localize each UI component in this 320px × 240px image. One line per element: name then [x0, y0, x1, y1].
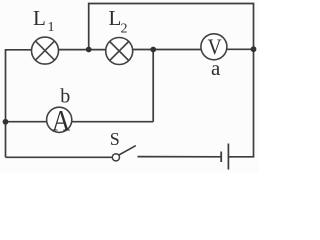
wire L2 to junction B	[133, 49, 154, 51]
svg-text:b: b	[60, 86, 70, 108]
svg-text:S: S	[110, 129, 120, 149]
voltmeter V	[201, 34, 227, 60]
wire L1 to junction A	[59, 49, 89, 51]
wire junction A to L2	[89, 49, 106, 51]
svg-text:a: a	[211, 56, 221, 80]
wire ammeter to corner	[72, 121, 153, 123]
node junction dot left	[3, 119, 9, 125]
lamp L2	[106, 38, 133, 65]
node junction dot A	[86, 47, 92, 53]
wire switch to battery	[138, 156, 221, 158]
battery	[221, 144, 228, 170]
lamp L1	[32, 37, 59, 64]
wire top-left segment	[5, 49, 32, 51]
wire left vertical	[5, 50, 7, 158]
switch S	[112, 146, 136, 161]
svg-text:L: L	[109, 6, 122, 30]
wire middle row left	[6, 121, 47, 123]
wire battery to right corner	[229, 156, 255, 158]
ammeter A	[47, 105, 72, 137]
svg-text:L: L	[33, 6, 46, 30]
svg-text:2: 2	[121, 22, 128, 37]
wire middle riser	[152, 50, 154, 122]
wire junction B to voltmeter	[153, 49, 201, 51]
wire bypass top horizontal	[88, 3, 254, 5]
wire right vertical	[253, 4, 255, 158]
wire bypass vertical	[88, 4, 90, 50]
svg-text:A: A	[52, 105, 71, 137]
node junction dot right	[251, 46, 257, 52]
node junction dot B	[150, 47, 156, 53]
svg-text:1: 1	[48, 20, 55, 35]
wire bottom left to switch	[6, 156, 113, 158]
wire voltmeter to right vertical	[227, 48, 254, 50]
